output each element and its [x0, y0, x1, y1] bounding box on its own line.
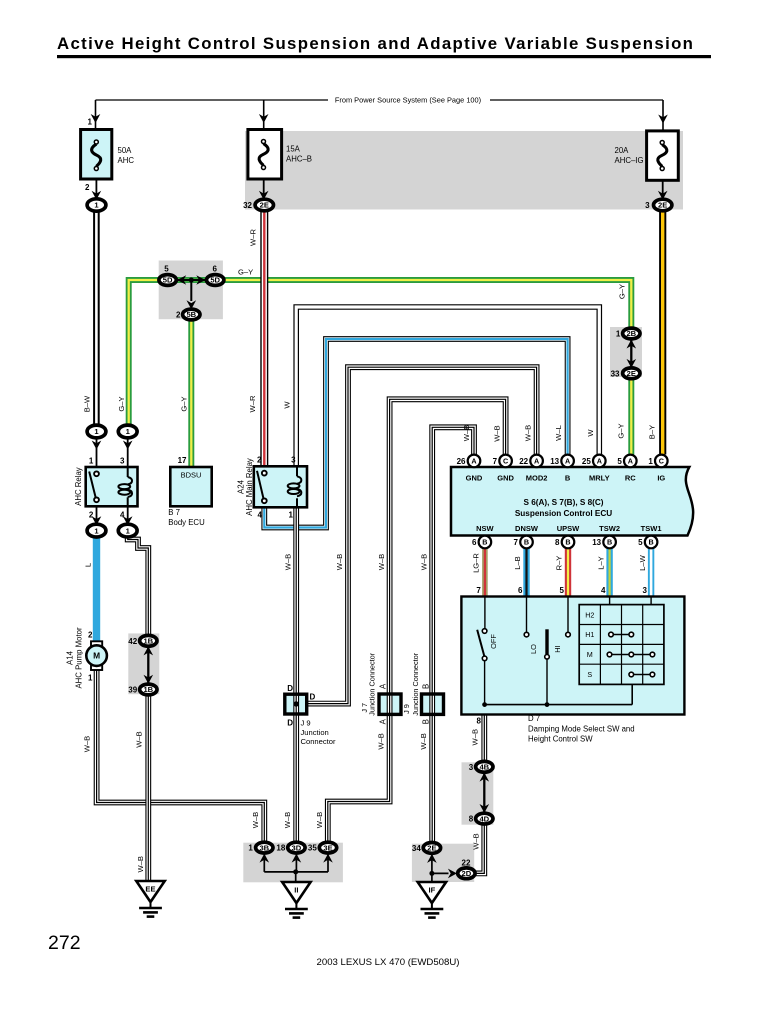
svg-text:A: A	[471, 457, 476, 466]
svg-text:13: 13	[550, 457, 559, 466]
svg-text:3: 3	[469, 763, 474, 772]
svg-text:6: 6	[212, 265, 217, 274]
svg-text:1: 1	[648, 457, 653, 466]
svg-text:4B: 4B	[479, 763, 489, 772]
svg-text:8: 8	[469, 815, 474, 824]
svg-text:7: 7	[514, 538, 519, 547]
svg-text:W: W	[586, 429, 595, 437]
svg-text:A: A	[378, 718, 387, 724]
svg-text:2D: 2D	[462, 869, 472, 878]
svg-text:A: A	[534, 457, 539, 466]
svg-text:D 7: D 7	[528, 714, 540, 723]
svg-text:B: B	[565, 538, 570, 547]
svg-text:G–Y: G–Y	[618, 284, 627, 299]
svg-text:W–B: W–B	[419, 733, 428, 749]
svg-text:13: 13	[592, 538, 601, 547]
svg-text:5D: 5D	[210, 276, 220, 285]
svg-text:D: D	[287, 684, 293, 693]
svg-text:A: A	[597, 457, 602, 466]
svg-text:20A: 20A	[615, 146, 630, 155]
svg-text:B–Y: B–Y	[648, 425, 657, 439]
svg-text:Suspension Control ECU: Suspension Control ECU	[515, 509, 612, 518]
svg-text:B: B	[565, 474, 571, 483]
svg-text:AHC: AHC	[118, 156, 135, 165]
svg-text:1B: 1B	[143, 685, 153, 694]
svg-text:AHC Main Relay: AHC Main Relay	[245, 458, 254, 516]
svg-text:33: 33	[611, 369, 620, 378]
svg-text:18: 18	[276, 844, 285, 853]
svg-text:AHC Pump Motor: AHC Pump Motor	[75, 627, 84, 688]
svg-text:B: B	[422, 684, 431, 689]
svg-text:5D: 5D	[163, 276, 173, 285]
svg-text:3D: 3D	[292, 843, 302, 852]
svg-text:2E: 2E	[627, 369, 636, 378]
svg-text:W–B: W–B	[136, 856, 145, 872]
svg-text:5: 5	[559, 586, 564, 595]
svg-text:2: 2	[85, 183, 90, 192]
svg-text:35: 35	[308, 844, 317, 853]
svg-text:W–B: W–B	[419, 554, 428, 570]
svg-text:W–L: W–L	[554, 425, 563, 441]
svg-text:W–B: W–B	[462, 425, 471, 441]
svg-text:2E: 2E	[260, 201, 269, 210]
svg-text:NSW: NSW	[476, 524, 494, 533]
svg-text:AHC–IG: AHC–IG	[615, 156, 644, 165]
svg-text:Active Height Control Suspensi: Active Height Control Suspension and Ada…	[57, 34, 694, 53]
svg-text:D: D	[310, 693, 316, 702]
svg-text:W–R: W–R	[249, 229, 258, 246]
svg-text:3: 3	[291, 455, 296, 464]
svg-text:W–B: W–B	[134, 731, 143, 747]
svg-text:2: 2	[176, 311, 181, 320]
svg-text:M: M	[93, 651, 100, 661]
svg-text:Body ECU: Body ECU	[168, 518, 205, 527]
svg-text:II: II	[294, 886, 298, 895]
svg-text:3: 3	[645, 201, 650, 210]
svg-text:17: 17	[178, 456, 187, 465]
svg-text:H1: H1	[585, 630, 594, 639]
svg-text:1: 1	[88, 674, 93, 683]
svg-text:1: 1	[248, 844, 253, 853]
svg-text:UPSW: UPSW	[557, 524, 580, 533]
svg-text:26: 26	[457, 457, 466, 466]
svg-text:W–B: W–B	[315, 812, 324, 828]
svg-text:8: 8	[477, 717, 482, 726]
svg-text:B–W: B–W	[83, 395, 92, 412]
svg-text:4: 4	[258, 511, 263, 520]
svg-text:42: 42	[128, 637, 137, 646]
svg-text:H2: H2	[585, 610, 594, 619]
svg-text:W–B: W–B	[377, 733, 386, 749]
svg-text:5: 5	[164, 265, 169, 274]
svg-text:BDSU: BDSU	[181, 471, 202, 480]
svg-text:LG–R: LG–R	[471, 553, 480, 573]
svg-text:B: B	[648, 538, 653, 547]
svg-text:5B: 5B	[186, 310, 196, 319]
svg-text:B 7: B 7	[168, 508, 180, 517]
svg-text:TSW2: TSW2	[599, 524, 620, 533]
svg-text:Junction Connector: Junction Connector	[411, 652, 420, 715]
svg-text:W–R: W–R	[248, 395, 257, 412]
svg-text:D: D	[287, 719, 293, 728]
svg-text:G–Y: G–Y	[238, 268, 253, 277]
svg-text:DNSW: DNSW	[515, 524, 539, 533]
svg-text:LO: LO	[529, 644, 538, 654]
svg-text:C: C	[503, 457, 508, 466]
svg-text:5: 5	[638, 538, 643, 547]
svg-text:50A: 50A	[118, 146, 133, 155]
svg-text:G–Y: G–Y	[117, 396, 126, 411]
svg-text:272: 272	[48, 932, 81, 954]
svg-text:L–Y: L–Y	[597, 556, 606, 570]
svg-text:8: 8	[555, 538, 560, 547]
svg-text:A: A	[565, 457, 570, 466]
svg-text:22: 22	[462, 859, 471, 868]
svg-text:1: 1	[89, 456, 94, 465]
svg-text:A14: A14	[66, 650, 75, 665]
svg-text:R–Y: R–Y	[555, 556, 564, 571]
svg-text:W–B: W–B	[251, 812, 260, 828]
svg-text:Height Control SW: Height Control SW	[528, 735, 593, 744]
svg-text:W–B: W–B	[82, 736, 91, 752]
svg-text:2E: 2E	[427, 844, 436, 853]
svg-text:G–Y: G–Y	[616, 423, 625, 438]
svg-text:5: 5	[617, 457, 622, 466]
svg-text:OFF: OFF	[489, 634, 498, 649]
svg-text:W–B: W–B	[377, 554, 386, 570]
svg-text:3: 3	[120, 456, 125, 465]
svg-text:L–W: L–W	[638, 554, 647, 570]
svg-text:7: 7	[493, 457, 498, 466]
svg-text:2: 2	[257, 455, 262, 464]
svg-text:M: M	[587, 650, 593, 659]
svg-text:HI: HI	[553, 645, 562, 652]
svg-text:C: C	[659, 457, 664, 466]
svg-text:IG: IG	[657, 474, 665, 483]
svg-text:J 9: J 9	[301, 719, 311, 728]
svg-text:S: S	[587, 670, 592, 679]
svg-text:G–Y: G–Y	[179, 396, 188, 411]
svg-text:B: B	[524, 538, 529, 547]
svg-text:3: 3	[643, 586, 648, 595]
svg-text:34: 34	[412, 844, 421, 853]
svg-text:3B: 3B	[259, 843, 269, 852]
svg-text:TSW1: TSW1	[641, 524, 662, 533]
svg-text:25: 25	[582, 457, 591, 466]
svg-text:2: 2	[89, 511, 94, 520]
svg-text:B: B	[422, 719, 431, 724]
svg-text:6: 6	[518, 586, 523, 595]
svg-text:1: 1	[88, 118, 93, 127]
svg-text:S 6(A), S 7(B), S 8(C): S 6(A), S 7(B), S 8(C)	[523, 498, 603, 507]
svg-text:L–B: L–B	[513, 556, 522, 570]
svg-text:From Power Source System (See: From Power Source System (See Page 100)	[335, 96, 481, 105]
svg-text:2: 2	[88, 631, 93, 640]
svg-text:B: B	[482, 538, 487, 547]
svg-text:1B: 1B	[143, 637, 153, 646]
svg-text:W–B: W–B	[283, 554, 292, 570]
svg-text:AHC Relay: AHC Relay	[74, 467, 83, 506]
svg-text:W–B: W–B	[470, 729, 479, 745]
svg-text:J 9: J 9	[402, 704, 411, 714]
svg-text:MOD2: MOD2	[526, 474, 548, 483]
svg-text:W–B: W–B	[524, 425, 533, 441]
svg-text:MRLY: MRLY	[589, 474, 610, 483]
svg-text:RC: RC	[625, 474, 636, 483]
svg-text:15A: 15A	[286, 145, 301, 154]
svg-text:W: W	[283, 401, 292, 409]
svg-text:1: 1	[616, 330, 621, 339]
svg-text:L: L	[83, 563, 92, 567]
svg-text:2E: 2E	[658, 201, 667, 210]
svg-text:W–B: W–B	[471, 833, 480, 849]
svg-text:Connector: Connector	[301, 737, 337, 746]
svg-text:W–B: W–B	[283, 812, 292, 828]
svg-text:W–B: W–B	[493, 425, 502, 441]
svg-text:A: A	[628, 457, 633, 466]
svg-text:Damping Mode Select SW and: Damping Mode Select SW and	[528, 725, 635, 734]
svg-text:W–B: W–B	[335, 554, 344, 570]
svg-text:39: 39	[128, 686, 137, 695]
svg-text:2B: 2B	[626, 329, 636, 338]
svg-text:6: 6	[472, 538, 477, 547]
svg-text:Junction Connector: Junction Connector	[368, 652, 377, 715]
svg-text:32: 32	[243, 201, 252, 210]
svg-text:IF: IF	[429, 886, 436, 895]
svg-text:4: 4	[120, 511, 125, 520]
svg-text:7: 7	[476, 586, 481, 595]
svg-text:AHC–B: AHC–B	[286, 155, 312, 164]
svg-text:A: A	[378, 683, 387, 689]
svg-text:GND: GND	[497, 474, 514, 483]
svg-text:1: 1	[289, 511, 294, 520]
svg-text:22: 22	[519, 457, 528, 466]
svg-text:2003 LEXUS LX 470 (EWD508U): 2003 LEXUS LX 470 (EWD508U)	[317, 957, 460, 968]
svg-text:3E: 3E	[323, 843, 332, 852]
svg-text:4D: 4D	[479, 814, 489, 823]
svg-text:EE: EE	[145, 885, 155, 894]
svg-text:B: B	[607, 538, 612, 547]
svg-text:GND: GND	[466, 474, 483, 483]
svg-text:Junction: Junction	[301, 728, 329, 737]
svg-text:4: 4	[601, 586, 606, 595]
